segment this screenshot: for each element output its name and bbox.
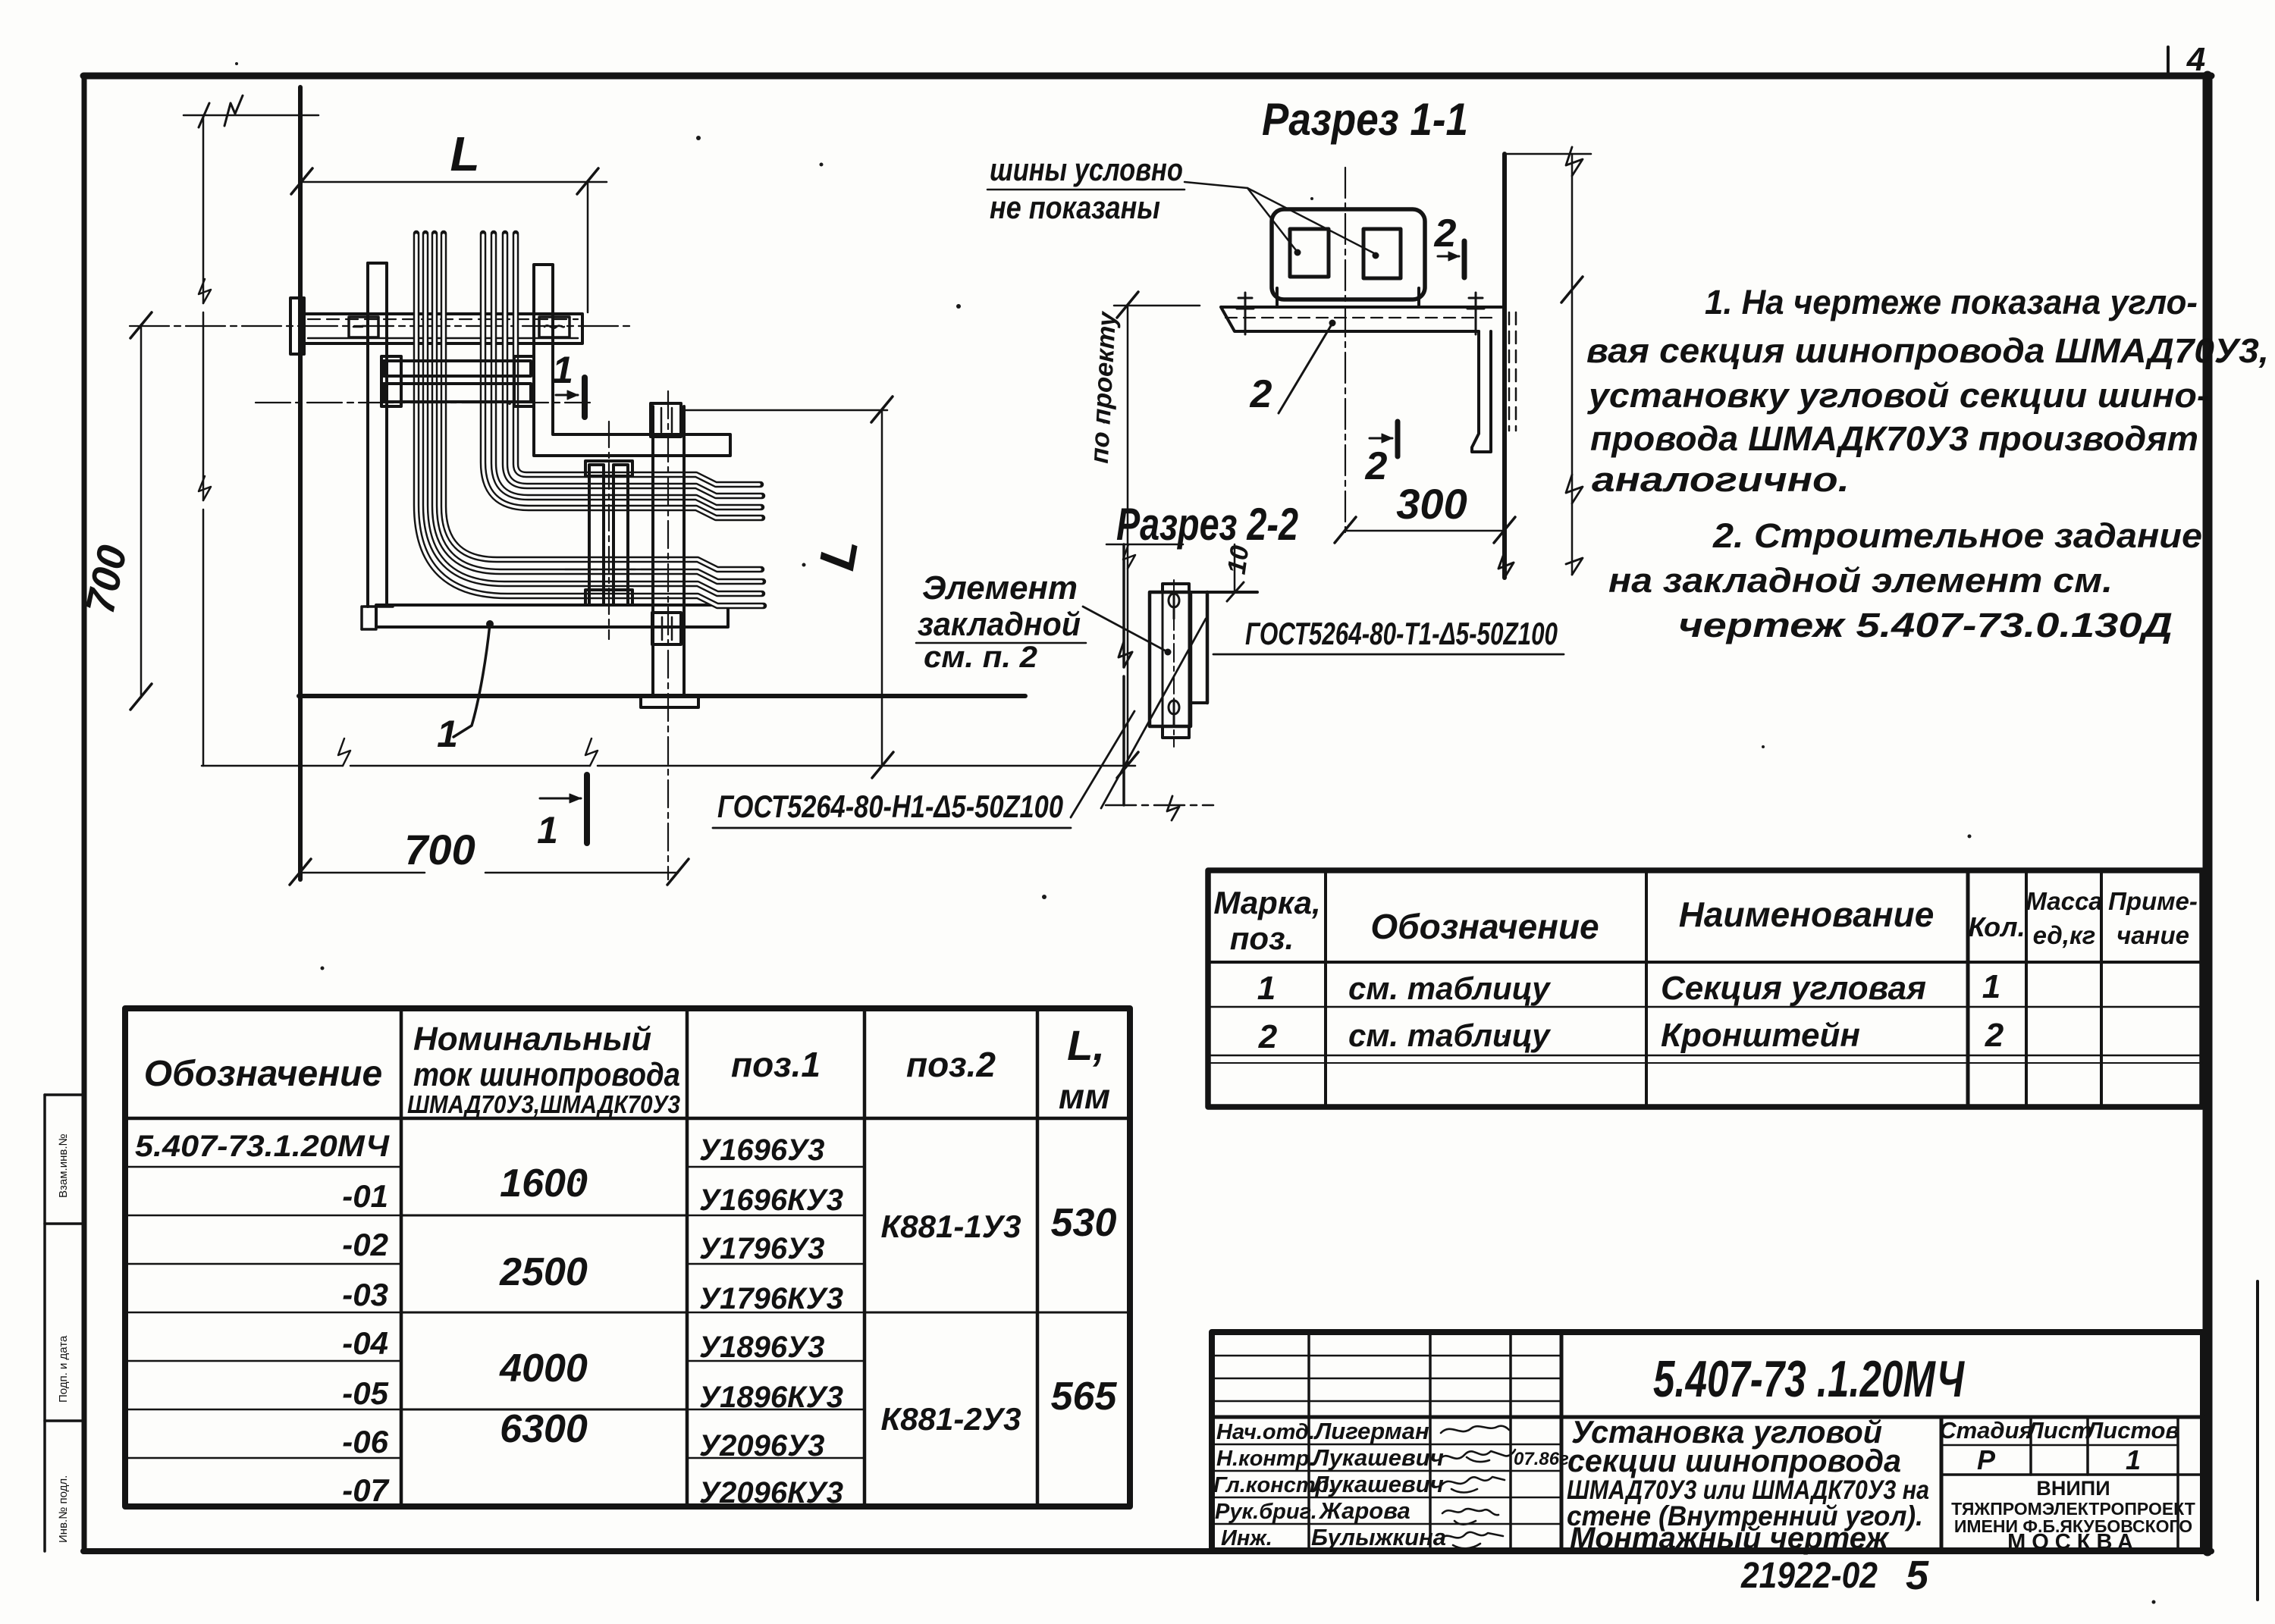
svg-text:К881-2У3: К881-2У3: [880, 1401, 1021, 1437]
svg-text:см. таблицу: см. таблицу: [1348, 970, 1552, 1006]
svg-text:5.407-73.1.20МЧ: 5.407-73.1.20МЧ: [135, 1130, 390, 1163]
svg-text:У1796У3: У1796У3: [699, 1232, 824, 1265]
svg-text:530: 530: [1051, 1201, 1117, 1245]
specification header line: [1208, 961, 2202, 964]
selection table header line: [125, 1117, 1130, 1121]
svg-text:МОСКВА: МОСКВА: [2007, 1530, 2139, 1554]
svg-text:-05: -05: [342, 1375, 388, 1411]
svg-text:-07: -07: [342, 1472, 389, 1508]
svg-text:на закладной элемент см.: на закладной элемент см.: [1608, 561, 2113, 600]
signature role column: [1213, 1420, 1335, 1550]
name column: [1311, 1418, 1446, 1550]
vertical clamp assembly plates: [589, 465, 604, 605]
horizontal clamp assembly plates: [384, 361, 531, 376]
leader from element label: [1083, 607, 1168, 652]
svg-text:2: 2: [1365, 444, 1388, 488]
lower chained dimension line: [202, 765, 343, 767]
vertical dimension L right: [881, 410, 883, 766]
svg-text:У1696У3: У1696У3: [699, 1133, 824, 1167]
clamp axis centerline: [256, 402, 590, 403]
svg-text:Масса: Масса: [2026, 887, 2102, 915]
svg-text:У1696КУ3: У1696КУ3: [699, 1184, 843, 1217]
top thin rows: [1212, 1355, 1561, 1357]
svg-text:поз.: поз.: [1230, 920, 1294, 956]
bracket hidden lines at wall: [1508, 312, 1511, 431]
duct hole right: [1363, 229, 1401, 278]
svg-text:1: 1: [437, 713, 458, 755]
signature squiggles: [1439, 1426, 1515, 1549]
position leader 1: [486, 620, 494, 628]
hanger top bolt box: [651, 403, 681, 437]
hanger foot plate: [641, 696, 698, 707]
busbar duct top run: [303, 314, 582, 343]
svg-text:Секция угловая: Секция угловая: [1661, 970, 1926, 1007]
svg-text:700: 700: [404, 826, 475, 873]
svg-text:2500: 2500: [499, 1250, 588, 1294]
wall top tick line: [1505, 153, 1591, 155]
duct axis centerline: [130, 325, 634, 327]
leader to bus holes: [1185, 182, 1296, 250]
row lines col1: [125, 1167, 401, 1458]
wall vertical line: [298, 87, 303, 879]
duct bolt clamp right: [539, 317, 570, 337]
svg-text:-03: -03: [342, 1277, 388, 1312]
svg-text:4000: 4000: [499, 1347, 588, 1390]
duct centerline: [1345, 168, 1346, 535]
extension line x268: [202, 115, 205, 303]
svg-text:ВНИПИ: ВНИПИ: [2036, 1477, 2110, 1500]
po proektu dimension: [1127, 306, 1129, 766]
specification row 2: [1258, 1017, 2004, 1055]
svg-text:не показаны: не показаны: [990, 190, 1160, 225]
svg-text:поз.2: поз.2: [906, 1045, 996, 1084]
svg-text:Обозначение: Обозначение: [144, 1054, 382, 1094]
svg-text:2: 2: [1985, 1017, 2004, 1054]
vertical dimension 700 line: [140, 324, 143, 698]
svg-text:Инв.№ подл.: Инв.№ подл.: [57, 1475, 70, 1543]
svg-text:Нач.отд.: Нач.отд.: [1216, 1420, 1315, 1444]
institute block: [1951, 1477, 2195, 1554]
svg-text:Разрез 1-1: Разрез 1-1: [1262, 94, 1468, 145]
svg-text:1600: 1600: [500, 1162, 588, 1205]
specification table frame: [1208, 870, 2202, 1107]
svg-text:Лукашевич: Лукашевич: [1311, 1444, 1444, 1471]
svg-text:Н.контр.: Н.контр.: [1216, 1447, 1316, 1471]
weld leader diagonal: [1101, 619, 1206, 808]
extension line from L to duct end: [587, 182, 589, 312]
svg-text:Разрез 2-2: Разрез 2-2: [1116, 499, 1298, 550]
left margin stamp boxes: [45, 1095, 84, 1551]
specification column lines: [1324, 870, 1327, 1107]
svg-text:Лукашевич: Лукашевич: [1311, 1471, 1444, 1497]
stamp box rotated labels: [57, 1133, 70, 1543]
designation column data: [135, 1130, 390, 1508]
top-left small dimension line: [184, 114, 318, 117]
hanger lower bolt box: [652, 613, 681, 644]
selection table frame: [125, 1008, 1130, 1506]
svg-text:Стадия: Стадия: [1939, 1417, 2033, 1444]
svg-text:Рук.бриг.: Рук.бриг.: [1215, 1500, 1317, 1524]
svg-text:Номинальный: Номинальный: [413, 1020, 651, 1058]
bracket top flange line: [1191, 591, 1257, 594]
bracket channel right with horizontal arm: [534, 265, 730, 456]
svg-text:1: 1: [2126, 1444, 2141, 1475]
current column data: [499, 1162, 588, 1451]
name row lines: [1212, 1444, 1561, 1446]
svg-text:см. п. 2: см. п. 2: [924, 641, 1037, 674]
svg-text:2: 2: [1434, 212, 1457, 256]
svg-text:-06: -06: [342, 1424, 388, 1459]
section mark 1 bottom: [584, 775, 590, 843]
svg-text:У1796КУ3: У1796КУ3: [699, 1282, 843, 1315]
svg-text:5.407-73 .1.20МЧ: 5.407-73 .1.20МЧ: [1653, 1350, 1965, 1408]
duct bolt clamp left: [349, 317, 378, 337]
svg-text:У1896КУ3: У1896КУ3: [699, 1381, 843, 1414]
title block main vertical dividers: [1560, 1332, 1564, 1550]
svg-text:2: 2: [1250, 372, 1272, 416]
svg-text:чертеж 5.407-73.0.130Д: чертеж 5.407-73.0.130Д: [1678, 606, 2173, 644]
svg-text:L,: L,: [1067, 1021, 1105, 1069]
svg-text:мм: мм: [1059, 1077, 1110, 1116]
header texts: [144, 1020, 1110, 1118]
svg-text:шины условно: шины условно: [990, 152, 1183, 187]
svg-text:Приме-: Приме-: [2108, 887, 2198, 915]
svg-text:Лигерман: Лигерман: [1313, 1418, 1429, 1444]
svg-text:ед,кг: ед,кг: [2033, 921, 2096, 949]
bolt left on shelf: [1237, 293, 1254, 334]
svg-text:поз.1: поз.1: [731, 1045, 821, 1084]
svg-text:Кронштейн: Кронштейн: [1661, 1017, 1860, 1054]
sheet edge line right: [2256, 1281, 2259, 1600]
svg-text:1: 1: [537, 809, 558, 851]
svg-text:ГОСТ5264-80-Т1-Δ5-50Z100: ГОСТ5264-80-Т1-Δ5-50Z100: [1245, 616, 1558, 651]
specification row lines: [1208, 1006, 2202, 1008]
svg-text:Марка,: Марка,: [1213, 885, 1320, 920]
svg-text:07.86г.: 07.86г.: [1514, 1449, 1574, 1469]
svg-text:5: 5: [1906, 1553, 1929, 1598]
svg-text:1: 1: [1257, 970, 1276, 1007]
duct body section: [1272, 209, 1425, 299]
svg-text:чание: чание: [2117, 921, 2189, 949]
right tall dimension line: [1571, 154, 1574, 575]
svg-text:Инж.: Инж.: [1221, 1526, 1272, 1550]
dimension 300: [1345, 530, 1505, 532]
header separating line: [1212, 1416, 2203, 1419]
svg-text:Обозначение: Обозначение: [1370, 907, 1599, 946]
wall mounting flange plate: [290, 298, 304, 354]
svg-text:У1896У3: У1896У3: [699, 1331, 824, 1364]
busbar group A vertical-to-lower-horizontal: [416, 234, 764, 606]
svg-text:300: 300: [1396, 480, 1467, 528]
drawing title lines: [1567, 1414, 1929, 1555]
stage list columns: [2029, 1417, 2032, 1475]
svg-text:-04: -04: [342, 1325, 388, 1361]
section mark 1 top: [582, 378, 588, 417]
svg-text:Наименование: Наименование: [1679, 895, 1935, 934]
svg-text:Элемент: Элемент: [922, 569, 1078, 607]
stage header texts: [1939, 1417, 2179, 1475]
svg-text:6300: 6300: [500, 1407, 588, 1451]
duct hole left: [1290, 229, 1329, 277]
specification row 1: [1257, 968, 2000, 1007]
svg-text:Лист: Лист: [2026, 1417, 2091, 1444]
svg-text:Взам.инв.№: Взам.инв.№: [57, 1133, 70, 1198]
svg-text:2. Строительное задание: 2. Строительное задание: [1712, 516, 2202, 555]
embedded channel behind: [1163, 584, 1189, 738]
svg-text:секции шинопровода: секции шинопровода: [1567, 1443, 1901, 1478]
svg-text:L: L: [450, 127, 479, 181]
hanger rod right: [651, 406, 654, 696]
svg-text:Листов: Листов: [2085, 1417, 2179, 1444]
extension line to L dim top: [681, 409, 887, 412]
poz1 column data: [699, 1133, 843, 1510]
svg-text:ШМАД70У3,ШМАДК70У3: ШМАД70У3,ШМАДК70У3: [407, 1090, 680, 1118]
svg-text:провода ШМАДК70У3 производят: провода ШМАДК70У3 производят: [1590, 419, 2198, 458]
svg-text:Кол.: Кол.: [1968, 911, 2025, 942]
bracket wall leg: [1472, 331, 1491, 452]
svg-text:У2096У3: У2096У3: [699, 1429, 824, 1463]
svg-text:10: 10: [1222, 544, 1255, 576]
group line col4 col5: [864, 1312, 1130, 1314]
svg-text:Р: Р: [1977, 1444, 1996, 1475]
sheet number tick top right: [2167, 47, 2170, 76]
svg-text:Булыжкина: Булыжкина: [1311, 1524, 1446, 1550]
svg-text:аналогично.: аналогично.: [1592, 460, 1850, 499]
svg-text:У2096КУ3: У2096КУ3: [699, 1476, 843, 1510]
bottom dash line of section 2-2: [1106, 804, 1213, 807]
lower bracket arm: [376, 605, 728, 627]
svg-text:1: 1: [1982, 968, 2000, 1005]
row lines col3: [687, 1167, 864, 1458]
duct feet: [1276, 288, 1279, 305]
svg-text:Подп. и дата: Подп. и дата: [57, 1335, 70, 1403]
horizontal dimension 700: [300, 872, 425, 874]
svg-text:4: 4: [2186, 41, 2205, 78]
svg-text:ГОСТ5264-80-Н1-Δ5-50Z100: ГОСТ5264-80-Н1-Δ5-50Z100: [717, 788, 1063, 824]
svg-text:Жарова: Жарова: [1318, 1497, 1410, 1524]
dimension 10: [1234, 544, 1236, 592]
specification header texts: [1213, 885, 2198, 956]
bracket shelf plate: [1221, 307, 1501, 331]
svg-text:закладной: закладной: [918, 606, 1081, 643]
title block frame: [1212, 1332, 2203, 1550]
svg-text:-01: -01: [342, 1178, 388, 1214]
svg-text:вая секция шинопровода ШМАД70У: вая секция шинопровода ШМАД70У3,: [1586, 331, 2269, 370]
svg-text:ток шинопровода: ток шинопровода: [413, 1056, 680, 1093]
left columns: [1307, 1332, 1310, 1550]
svg-text:2: 2: [1258, 1018, 1278, 1055]
svg-text:21922-02: 21922-02: [1740, 1556, 1878, 1596]
bracket leg section: [1206, 592, 1210, 703]
bolt right on shelf: [1467, 293, 1484, 334]
group lines col2: [401, 1215, 687, 1409]
hanger centerline: [667, 391, 669, 879]
top dimension L line: [302, 181, 607, 183]
svg-text:установку угловой секции шино-: установку угловой секции шино-: [1587, 376, 2209, 415]
svg-text:К881-1У3: К881-1У3: [880, 1209, 1021, 1244]
wall edge line with breaks: [1122, 544, 1125, 667]
svg-text:1. На чертеже показана угло-: 1. На чертеже показана угло-: [1705, 283, 2198, 321]
section mark 2 bottom: [1395, 422, 1401, 456]
svg-text:см. таблицу: см. таблицу: [1348, 1017, 1552, 1053]
busbar group B vertical-to-upper-horizontal: [483, 234, 762, 518]
wall line section 1-1: [1502, 154, 1507, 578]
selection table column lines: [400, 1008, 403, 1506]
vertical clamp centerline: [608, 422, 610, 639]
svg-text:1: 1: [552, 349, 573, 391]
embedded plate: [1150, 592, 1191, 726]
svg-text:-02: -02: [342, 1227, 388, 1262]
mounting channel profile left: [366, 263, 369, 607]
wall bottom line: [299, 694, 1025, 698]
svg-text:Монтажный чертеж: Монтажный чертеж: [1570, 1522, 1891, 1555]
svg-text:565: 565: [1051, 1375, 1118, 1419]
plate bolts: [1169, 593, 1179, 619]
